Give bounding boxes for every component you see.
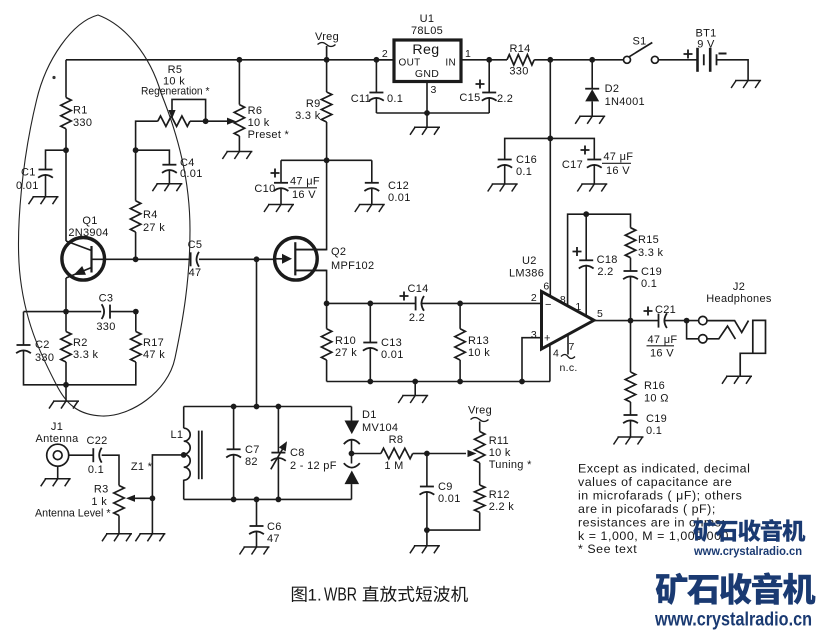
svg-text:C15: C15 <box>459 92 480 104</box>
wire Q2 drain <box>295 160 326 249</box>
svg-text:9 V: 9 V <box>697 39 715 51</box>
potentiometer R6 <box>227 105 290 141</box>
svg-text:1: 1 <box>575 301 581 313</box>
wire C19 to output <box>630 276 632 321</box>
wire C9 bottom stub <box>426 492 428 531</box>
svg-text:Antenna: Antenna <box>35 433 79 445</box>
wire R9 bottom lead <box>326 122 328 160</box>
wire R10 leads <box>326 303 328 381</box>
svg-text:2 - 12 pF: 2 - 12 pF <box>290 460 337 472</box>
ground R6 <box>222 152 252 160</box>
wire R11 R12 link <box>479 463 481 485</box>
svg-text:3.3 k: 3.3 k <box>638 247 664 259</box>
svg-text:www.crystalradio.cn: www.crystalradio.cn <box>654 609 812 631</box>
svg-text:1N4001: 1N4001 <box>605 96 645 108</box>
svg-text:330: 330 <box>73 117 92 129</box>
svg-text:C8: C8 <box>290 447 305 459</box>
svg-text:L1: L1 <box>171 429 184 441</box>
svg-text:82: 82 <box>245 456 258 468</box>
svg-text:Preset *: Preset * <box>248 129 290 141</box>
wire C16 ground stub <box>504 165 506 185</box>
wire C17 ground stub <box>593 165 595 185</box>
svg-text:Q2: Q2 <box>331 246 346 258</box>
wire R16 C19b link <box>630 402 632 415</box>
svg-text:C9: C9 <box>438 481 453 493</box>
svg-text:2: 2 <box>531 292 537 304</box>
variable capacitor C8 <box>271 441 337 472</box>
svg-text:R1: R1 <box>73 105 88 117</box>
wire C1 branch <box>46 150 67 169</box>
svg-text:C19: C19 <box>641 266 662 278</box>
wire pin3 route <box>522 338 542 382</box>
wire R6 top lead <box>238 60 240 105</box>
wire D1 mid links <box>351 441 353 464</box>
wire Vreg stub <box>326 46 328 60</box>
resistor R13 <box>455 329 490 360</box>
potentiometer R11 <box>468 432 533 472</box>
wire C19b gnd stub <box>630 420 632 437</box>
stray ink dot <box>52 76 55 79</box>
wire C11 stub <box>375 60 377 93</box>
capacitor C3 <box>96 293 115 334</box>
inductor L1 <box>171 428 202 480</box>
wire C1 to ground <box>45 175 47 197</box>
svg-text:R12: R12 <box>489 489 510 501</box>
svg-text:Z1 *: Z1 * <box>131 461 153 473</box>
wire Q1 base link <box>92 258 136 260</box>
capacitor C16 <box>497 154 537 178</box>
svg-text:R16: R16 <box>644 380 665 392</box>
svg-text:C22: C22 <box>86 435 107 447</box>
svg-text:8: 8 <box>560 294 566 306</box>
wire C13 bottom stub <box>369 348 371 382</box>
wire C10 stub <box>280 160 282 183</box>
wire R13 top stub <box>459 303 461 328</box>
ground R3 <box>102 534 132 542</box>
capacitor C11 <box>351 93 403 106</box>
svg-text:Headphones: Headphones <box>706 293 772 305</box>
capacitor C13 <box>363 337 404 361</box>
wire C11 to gnd rail <box>375 98 377 114</box>
svg-text:0.1: 0.1 <box>387 93 403 105</box>
wire wiper gnd stub <box>151 498 153 534</box>
svg-text:C12: C12 <box>388 180 409 192</box>
wire LM386 pin6 line <box>549 60 551 296</box>
ground C1 <box>29 197 59 205</box>
wire C15 stub <box>488 60 490 93</box>
capacitor C17 <box>562 146 633 178</box>
capacitor C6 <box>249 521 282 545</box>
svg-text:R6: R6 <box>248 105 263 117</box>
svg-text:C11: C11 <box>351 93 371 105</box>
ground J2 <box>722 376 752 384</box>
svg-text:16 V: 16 V <box>606 165 630 177</box>
pin7 n.c. mark <box>560 355 578 375</box>
svg-text:0.1: 0.1 <box>516 166 532 178</box>
wire C14 to pin2 <box>421 302 542 304</box>
svg-text:3.3 k: 3.3 k <box>295 110 321 122</box>
Vreg top label <box>315 31 339 60</box>
wire R15 C19 link <box>630 258 632 271</box>
wire R9 top lead <box>326 60 328 92</box>
wire Vreg2 stub <box>479 422 481 432</box>
wire battery to ground <box>716 60 748 81</box>
wire tuning node to wiper <box>427 453 466 455</box>
capacitor C21 <box>644 304 678 360</box>
svg-text:C21: C21 <box>655 304 676 316</box>
svg-text:47 μF: 47 μF <box>603 151 633 163</box>
connector J2 Headphones <box>699 281 772 376</box>
svg-text:R5: R5 <box>168 64 183 76</box>
capacitor C19 lower <box>623 413 667 437</box>
wire J1 gnd stub <box>57 466 59 479</box>
ground C12 <box>355 205 385 213</box>
svg-text:R14: R14 <box>509 43 530 55</box>
wire R2 top lead <box>65 312 67 332</box>
wire U1 gnd stub <box>426 113 428 127</box>
wire R17 top lead <box>135 312 137 332</box>
svg-text:0.01: 0.01 <box>388 192 411 204</box>
transistor Q2 <box>274 237 374 280</box>
svg-text:1 M: 1 M <box>384 460 403 472</box>
svg-text:R8: R8 <box>389 434 404 446</box>
svg-text:C19: C19 <box>646 413 667 425</box>
svg-text:GND: GND <box>415 68 439 80</box>
ground bias network <box>49 401 79 409</box>
svg-text:C6: C6 <box>267 521 282 533</box>
svg-text:16 V: 16 V <box>650 348 674 360</box>
svg-text:0.1: 0.1 <box>88 464 104 476</box>
svg-text:R9: R9 <box>306 98 321 110</box>
wire C2 top link <box>24 312 67 345</box>
wire S1 to battery <box>658 59 697 61</box>
svg-text:C16: C16 <box>516 154 537 166</box>
svg-text:3.3 k: 3.3 k <box>73 349 99 361</box>
caption figure 1 <box>292 585 468 605</box>
wire C9 gnd stub <box>426 530 428 546</box>
svg-text:C17: C17 <box>562 159 583 171</box>
svg-text:47 μF: 47 μF <box>290 176 320 188</box>
svg-text:0.1: 0.1 <box>641 278 657 290</box>
capacitor C22 <box>86 435 107 476</box>
svg-text:3: 3 <box>431 84 437 96</box>
svg-text:MV104: MV104 <box>362 422 398 434</box>
svg-text:C7: C7 <box>245 444 260 456</box>
svg-text:resistances are in ohms;: resistances are in ohms; <box>578 515 726 529</box>
wire Q2 source <box>295 270 326 303</box>
svg-text:J1: J1 <box>51 421 63 433</box>
svg-text:C18: C18 <box>597 254 618 266</box>
svg-text:R3: R3 <box>94 484 109 496</box>
wire varactor to R8 <box>352 453 381 455</box>
ground BT1 <box>731 81 761 89</box>
wire C15 bottom stub <box>488 98 490 114</box>
resistor R9 <box>295 92 332 122</box>
capacitor C7 <box>226 444 259 468</box>
wire audio ground rail <box>327 381 550 383</box>
wire C9 top stub <box>426 454 428 487</box>
capacitor C9 <box>420 481 461 505</box>
wire R3 bottom lead <box>118 516 120 534</box>
svg-text:330: 330 <box>96 321 115 333</box>
wire main V+ top rail <box>66 59 394 61</box>
wire R13 bottom stub <box>459 360 461 382</box>
ground C4 <box>152 184 182 192</box>
wire C4 branch <box>136 150 170 165</box>
svg-text:Vreg: Vreg <box>315 31 339 43</box>
wire D1 bottom lead <box>351 484 353 499</box>
svg-text:47 μF: 47 μF <box>648 334 678 346</box>
svg-text:Except as indicated, decimal: Except as indicated, decimal <box>578 462 750 476</box>
svg-text:C14: C14 <box>407 283 428 295</box>
wire R5 wiper link <box>172 99 206 121</box>
wire R14 to S1 <box>534 59 623 61</box>
wire audio node rail <box>327 302 416 304</box>
wire R17 bottom lead <box>66 362 136 385</box>
svg-text:27 k: 27 k <box>335 347 357 359</box>
svg-text:6: 6 <box>543 281 549 293</box>
wire U1 gnd rail <box>376 112 489 114</box>
capacitor C5 <box>188 239 203 279</box>
wire R5 right lead <box>190 120 206 122</box>
wire pin4 route <box>549 345 551 382</box>
capacitor C15 <box>459 80 513 106</box>
wire R5 left lead <box>136 121 158 150</box>
wire R12 bottom route <box>427 512 480 530</box>
wire C8 stubs <box>277 407 279 500</box>
svg-text:C3: C3 <box>99 293 114 305</box>
wire R1 top lead <box>65 60 67 98</box>
svg-text:www.crystalradio.cn: www.crystalradio.cn <box>693 544 802 558</box>
wire L1 top lead <box>183 407 185 429</box>
svg-text:0.01: 0.01 <box>180 168 203 180</box>
capacitor C18 <box>573 247 618 278</box>
svg-text:Antenna Level *: Antenna Level * <box>35 508 111 520</box>
capacitor C1 <box>16 167 53 193</box>
svg-text:330: 330 <box>509 66 528 78</box>
label Z1 <box>131 461 153 473</box>
wire R3 wiper line <box>131 497 152 499</box>
wire C3 right link <box>110 311 136 313</box>
battery BT1 9V <box>684 28 727 72</box>
ground audio rail <box>398 396 428 404</box>
wire J2 sleeve branch <box>687 321 699 339</box>
svg-text:16 V: 16 V <box>292 189 316 201</box>
wire C10 ground stub <box>280 188 282 205</box>
resistor R4 <box>130 201 165 234</box>
svg-text:0.01: 0.01 <box>381 349 404 361</box>
svg-text:LM386: LM386 <box>509 268 544 280</box>
resistor R17 <box>131 332 166 363</box>
svg-text:10 k: 10 k <box>248 117 270 129</box>
svg-text:10 Ω: 10 Ω <box>644 393 669 405</box>
capacitor C10 <box>254 169 319 202</box>
regulator U1 78L05 <box>377 13 471 96</box>
hand-drawn highlight ellipse <box>19 15 190 416</box>
varactor D1 MV104 <box>344 409 399 484</box>
wire C5 to Q2 gate <box>199 258 274 260</box>
svg-text:2.2: 2.2 <box>409 312 425 324</box>
ground D2 <box>575 116 605 124</box>
ground C9 R12 <box>410 546 440 554</box>
resistor R12 <box>475 485 515 513</box>
svg-text:C10: C10 <box>254 183 275 195</box>
capacitor C14 <box>400 283 429 324</box>
wire pin8 route <box>568 214 631 306</box>
ground J1 <box>41 479 71 487</box>
svg-text:0.1: 0.1 <box>646 425 662 437</box>
svg-text:47 k: 47 k <box>143 349 165 361</box>
svg-text:1.: 1. <box>308 586 322 605</box>
wire R8 to tuning node <box>413 453 427 455</box>
wire J1 link <box>69 454 94 456</box>
svg-text:47: 47 <box>267 533 280 545</box>
wire R16 stub <box>630 321 632 372</box>
resistor R16 <box>625 372 668 405</box>
svg-text:R11: R11 <box>489 435 509 447</box>
svg-text:are in picofarads ( pF);: are in picofarads ( pF); <box>578 502 716 516</box>
wire pin7 stub <box>567 334 569 354</box>
wire R1 bottom to Q1 collector node <box>65 129 67 241</box>
wire gate node to tank <box>256 259 258 406</box>
svg-text:n.c.: n.c. <box>560 362 578 374</box>
ground U1 <box>410 127 440 135</box>
svg-text:2: 2 <box>382 48 388 60</box>
svg-text:47: 47 <box>189 267 202 279</box>
wire tank bottom <box>184 498 352 500</box>
wire pin5 output <box>594 320 659 322</box>
svg-text:1 k: 1 k <box>91 496 107 508</box>
wire C4 to ground <box>168 170 170 184</box>
svg-text:R2: R2 <box>73 337 88 349</box>
switch S1 <box>624 36 659 64</box>
wire R6 bottom to ground <box>238 136 240 152</box>
svg-text:C13: C13 <box>381 337 402 349</box>
svg-text:U1: U1 <box>420 13 435 25</box>
wire output to J2 <box>664 320 700 322</box>
wire U1 pin1 to R14 <box>461 59 507 61</box>
wire R2 bottom lead <box>65 362 67 385</box>
svg-text:−: − <box>545 299 552 311</box>
wire L1 bottom lead <box>183 480 185 500</box>
svg-text:2.2: 2.2 <box>497 93 513 105</box>
svg-text:S1: S1 <box>632 36 646 48</box>
svg-text:Vreg: Vreg <box>468 405 492 417</box>
wire audio gnd stub <box>414 382 416 396</box>
potentiometer R5 <box>141 64 210 126</box>
svg-text:R10: R10 <box>335 335 356 347</box>
svg-text:7: 7 <box>569 341 575 353</box>
svg-text:Tuning *: Tuning * <box>489 459 532 471</box>
svg-text:2.2: 2.2 <box>597 266 613 278</box>
wire C12 ground stub <box>371 188 373 205</box>
svg-text:k = 1,000, M = 1,000,000.: k = 1,000, M = 1,000,000. <box>578 529 733 543</box>
svg-text:WBR: WBR <box>324 585 357 605</box>
resistor R8 <box>381 434 413 472</box>
svg-text:in microfarads ( μF); others: in microfarads ( μF); others <box>578 488 742 502</box>
svg-text:Reg: Reg <box>412 42 439 58</box>
svg-text:4: 4 <box>553 348 559 360</box>
wire Q1 emitter down <box>65 278 67 312</box>
svg-text:3: 3 <box>531 329 537 341</box>
capacitor C12 <box>364 180 410 204</box>
svg-text:D2: D2 <box>605 83 620 95</box>
Vreg tuning label <box>468 405 492 422</box>
wire C3 left link <box>66 311 101 313</box>
wire tank top <box>184 406 352 408</box>
svg-text:Q1: Q1 <box>82 215 97 227</box>
wire bias ground stub <box>65 385 67 401</box>
wire C6 stub <box>256 499 258 547</box>
svg-text:* See text: * See text <box>578 542 637 556</box>
svg-text:values of capacitance are: values of capacitance are <box>578 475 732 489</box>
wire C12 stub <box>371 160 373 183</box>
wire C13 top stub <box>369 303 371 342</box>
svg-text:78L05: 78L05 <box>411 25 443 37</box>
wire wiper to L1 tap <box>152 455 183 498</box>
ground C17 <box>577 184 607 192</box>
svg-text:10 k: 10 k <box>468 347 490 359</box>
svg-text:1: 1 <box>465 48 471 60</box>
svg-text:U2: U2 <box>522 255 537 267</box>
wire C22 to R3 <box>102 455 119 485</box>
wire R4 link <box>135 150 137 259</box>
svg-text:0.01: 0.01 <box>16 180 39 192</box>
svg-text:J2: J2 <box>733 281 745 293</box>
capacitor C19 upper <box>623 266 662 290</box>
resistor R14 <box>507 43 534 78</box>
svg-text:D1: D1 <box>362 409 377 421</box>
capacitor C2 <box>16 339 54 364</box>
svg-text:OUT: OUT <box>399 58 421 69</box>
watermark large crystalradio <box>654 572 815 630</box>
ground C6 <box>240 547 270 555</box>
wire C2 bottom link <box>24 350 67 385</box>
svg-text:2.2 k: 2.2 k <box>489 501 515 513</box>
connector J1 Antenna <box>35 421 79 466</box>
resistor R10 <box>321 329 357 360</box>
resistor R1 <box>61 98 92 130</box>
potentiometer R3 <box>35 484 135 520</box>
svg-text:Regeneration *: Regeneration * <box>141 86 210 98</box>
wire C16 C17 rail <box>505 138 595 159</box>
wire D2 stub <box>591 60 593 89</box>
transistor Q1 <box>62 215 109 280</box>
svg-text:R17: R17 <box>143 337 164 349</box>
wire C7 stubs <box>233 407 235 500</box>
wire base to C5 <box>136 258 191 260</box>
svg-text:IN: IN <box>445 58 456 69</box>
svg-text:MPF102: MPF102 <box>331 260 374 272</box>
wire R5 wiper to R6 wiper <box>206 120 233 122</box>
svg-text:27 k: 27 k <box>143 222 165 234</box>
capacitor C4 <box>162 157 203 180</box>
note text block <box>578 462 750 557</box>
wire C10 C12 rail <box>281 159 372 161</box>
svg-text:R13: R13 <box>468 335 489 347</box>
svg-text:10 k: 10 k <box>489 447 511 459</box>
resistor R15 <box>625 228 663 259</box>
ground C19 lower <box>614 437 644 445</box>
svg-text:2N3904: 2N3904 <box>68 227 108 239</box>
watermark small crystalradio <box>693 519 805 558</box>
op-amp U2 LM386 <box>509 255 603 360</box>
ground R3 wiper <box>135 534 165 542</box>
svg-text:R4: R4 <box>143 209 158 221</box>
resistor R2 <box>61 332 99 363</box>
diode D2 1N4001 <box>585 83 645 108</box>
wire pin1 route <box>585 214 587 316</box>
